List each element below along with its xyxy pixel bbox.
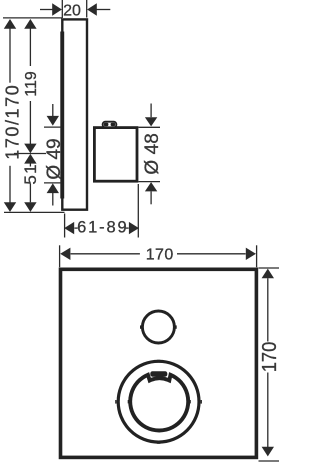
wall plate outline (side view) — [62, 19, 87, 209]
svg-text:51: 51 — [21, 164, 40, 184]
extension line handle top (left) — [44, 126, 62, 128]
dimension D48 (handle diameter, right) — [139, 104, 161, 205]
handle body (side view) — [94, 128, 137, 182]
svg-text:170: 170 — [146, 246, 174, 263]
outer ring mould nibs — [115, 400, 116, 404]
extension line bottom (plate bottom) — [4, 211, 65, 213]
dimension 170/170 (plate height, far left) — [9, 29, 11, 204]
dimension D49 (handle diameter, left) — [52, 104, 54, 206]
select button (small circle) — [142, 311, 174, 343]
svg-text:20: 20 — [63, 3, 81, 20]
dimension 20 (plate depth, top) — [40, 0, 110, 18]
inner ring side nibs — [128, 400, 129, 403]
dimension 51 (handle centre to bottom) — [29, 164, 31, 203]
svg-text:61-89: 61-89 — [77, 219, 126, 237]
escutcheon square plate (front view) — [61, 269, 257, 457]
extension line handle centerline — [14, 153, 46, 155]
escutcheon plate edge bar (side view) — [60, 32, 64, 199]
safety stop button on handle top (side view) — [103, 122, 117, 128]
svg-text:Ø 49: Ø 49 — [44, 138, 65, 179]
dimension 119 (top to handle centre) — [29, 29, 31, 145]
dimension 170 (front height, right) — [259, 268, 280, 461]
dimension 61-89 (wall to handle front) — [65, 184, 139, 238]
svg-text:Ø 48: Ø 48 — [142, 133, 163, 175]
svg-text:119: 119 — [23, 71, 40, 97]
dimension 170 (front width, top) — [60, 245, 257, 267]
grip marker tab — [150, 371, 167, 377]
extension line handle bottom (left) — [44, 182, 62, 184]
extension line top (plate top) — [3, 17, 62, 19]
thermostat handle inner ring (front view) — [130, 375, 188, 431]
thermostat handle outer ring (front view) — [118, 361, 199, 442]
svg-text:170: 170 — [259, 342, 279, 373]
select button side nibs — [140, 325, 141, 328]
